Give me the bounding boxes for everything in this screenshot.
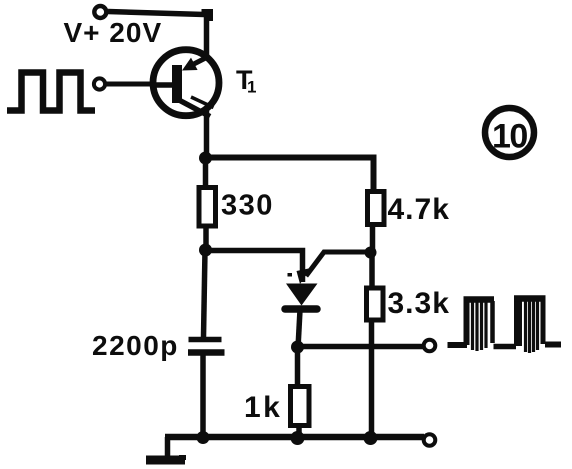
bottom rail (ground bus) xyxy=(165,434,424,441)
transistor T1 xyxy=(150,50,219,117)
label V+ 20V xyxy=(64,17,163,48)
wire node D to output terminal 1 xyxy=(298,344,425,350)
figure number badge 10 xyxy=(485,108,534,157)
wire input to base xyxy=(106,82,153,87)
label 3.3k xyxy=(388,287,450,320)
node A (junction dot) xyxy=(199,152,212,165)
ground xyxy=(146,437,186,465)
diode cathode bar xyxy=(285,305,317,313)
wire node C to 3.3k xyxy=(369,252,375,289)
label 2200p xyxy=(92,330,179,361)
label 330 xyxy=(221,190,274,222)
node C (junction dot) xyxy=(365,247,377,259)
wire cathode down to node D xyxy=(298,310,300,348)
svg-text:3.3k: 3.3k xyxy=(388,287,450,320)
wire 1k to bottom rail xyxy=(296,425,302,438)
resistor 330 xyxy=(199,188,216,227)
resistor 3.3k xyxy=(367,288,384,320)
node E (junction dot, cap to rail) xyxy=(197,431,210,444)
diode D1 (triangle) xyxy=(286,284,318,306)
label 4.7k xyxy=(388,193,450,226)
svg-text:330: 330 xyxy=(221,190,274,222)
wire node D down to 1k xyxy=(295,347,301,389)
wire node A to top of 4.7k xyxy=(206,158,374,194)
wire node B to diode anode xyxy=(206,251,303,283)
terminal input (open circle) xyxy=(94,78,105,89)
node D (junction dot) xyxy=(291,341,304,354)
wire node A down to 330 xyxy=(203,158,209,190)
wire V+ rail to collector xyxy=(108,12,210,57)
wire collector down to node A xyxy=(204,111,210,158)
resistor 4.7k xyxy=(368,192,385,225)
wire 330 to node B xyxy=(203,226,209,251)
svg-text:1k: 1k xyxy=(244,391,282,424)
terminal output 1 (open circle) xyxy=(424,340,436,352)
svg-text:4.7k: 4.7k xyxy=(388,193,450,226)
svg-text:1: 1 xyxy=(247,78,256,97)
node F (junction dot, 1k to rail) xyxy=(291,431,305,445)
stray mark xyxy=(288,273,293,277)
svg-text:2200p: 2200p xyxy=(92,330,179,361)
capacitor 2200p (left rail + plates) xyxy=(188,251,225,439)
resistor 1k xyxy=(291,387,310,426)
label T1 xyxy=(236,65,256,97)
label 1k xyxy=(244,391,282,424)
node B (junction dot) xyxy=(199,244,212,257)
svg-text:10: 10 xyxy=(492,118,527,156)
terminal V+ (open circle) xyxy=(94,6,106,18)
node G (junction dot, 3.3k leg to rail) xyxy=(364,431,378,445)
wire 3.3k to bottom rail xyxy=(369,320,375,438)
gate wire with arrow from node C to diode xyxy=(297,252,371,284)
output waveform symbol (pulse bursts) xyxy=(448,299,562,354)
wire 4.7k to node C xyxy=(370,224,376,253)
input square-wave symbol xyxy=(7,73,95,111)
terminal output 2 (open circle) xyxy=(424,434,436,446)
svg-text:V+ 20V: V+ 20V xyxy=(64,17,163,48)
